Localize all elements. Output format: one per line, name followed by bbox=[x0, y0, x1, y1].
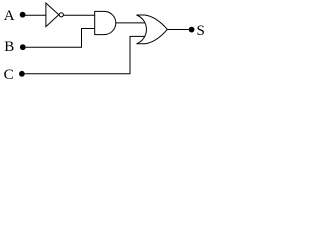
node S terminal dot bbox=[189, 27, 195, 33]
svg-text:C: C bbox=[4, 67, 14, 83]
svg-text:S: S bbox=[197, 23, 205, 39]
wire NOT bubble to AND upper input bbox=[63, 14, 94, 16]
OR gate U3 bbox=[137, 15, 168, 44]
wire AND output to OR upper input bbox=[116, 22, 146, 24]
wire A dot to NOT input bbox=[25, 14, 46, 16]
inverter U1 triangle bbox=[46, 3, 59, 27]
node A terminal dot bbox=[20, 12, 26, 18]
wire C dot to OR lower input (right, up, right) bbox=[25, 36, 146, 73]
AND gate U2 bbox=[95, 11, 116, 34]
wire OR output to S dot bbox=[167, 29, 188, 31]
wire B dot to AND lower input (right, up, right) bbox=[26, 29, 95, 48]
node B terminal dot bbox=[20, 44, 26, 50]
svg-text:B: B bbox=[4, 39, 14, 55]
svg-text:A: A bbox=[4, 8, 15, 24]
node C terminal dot bbox=[19, 71, 25, 77]
inverter U1 output bubble bbox=[59, 13, 63, 17]
